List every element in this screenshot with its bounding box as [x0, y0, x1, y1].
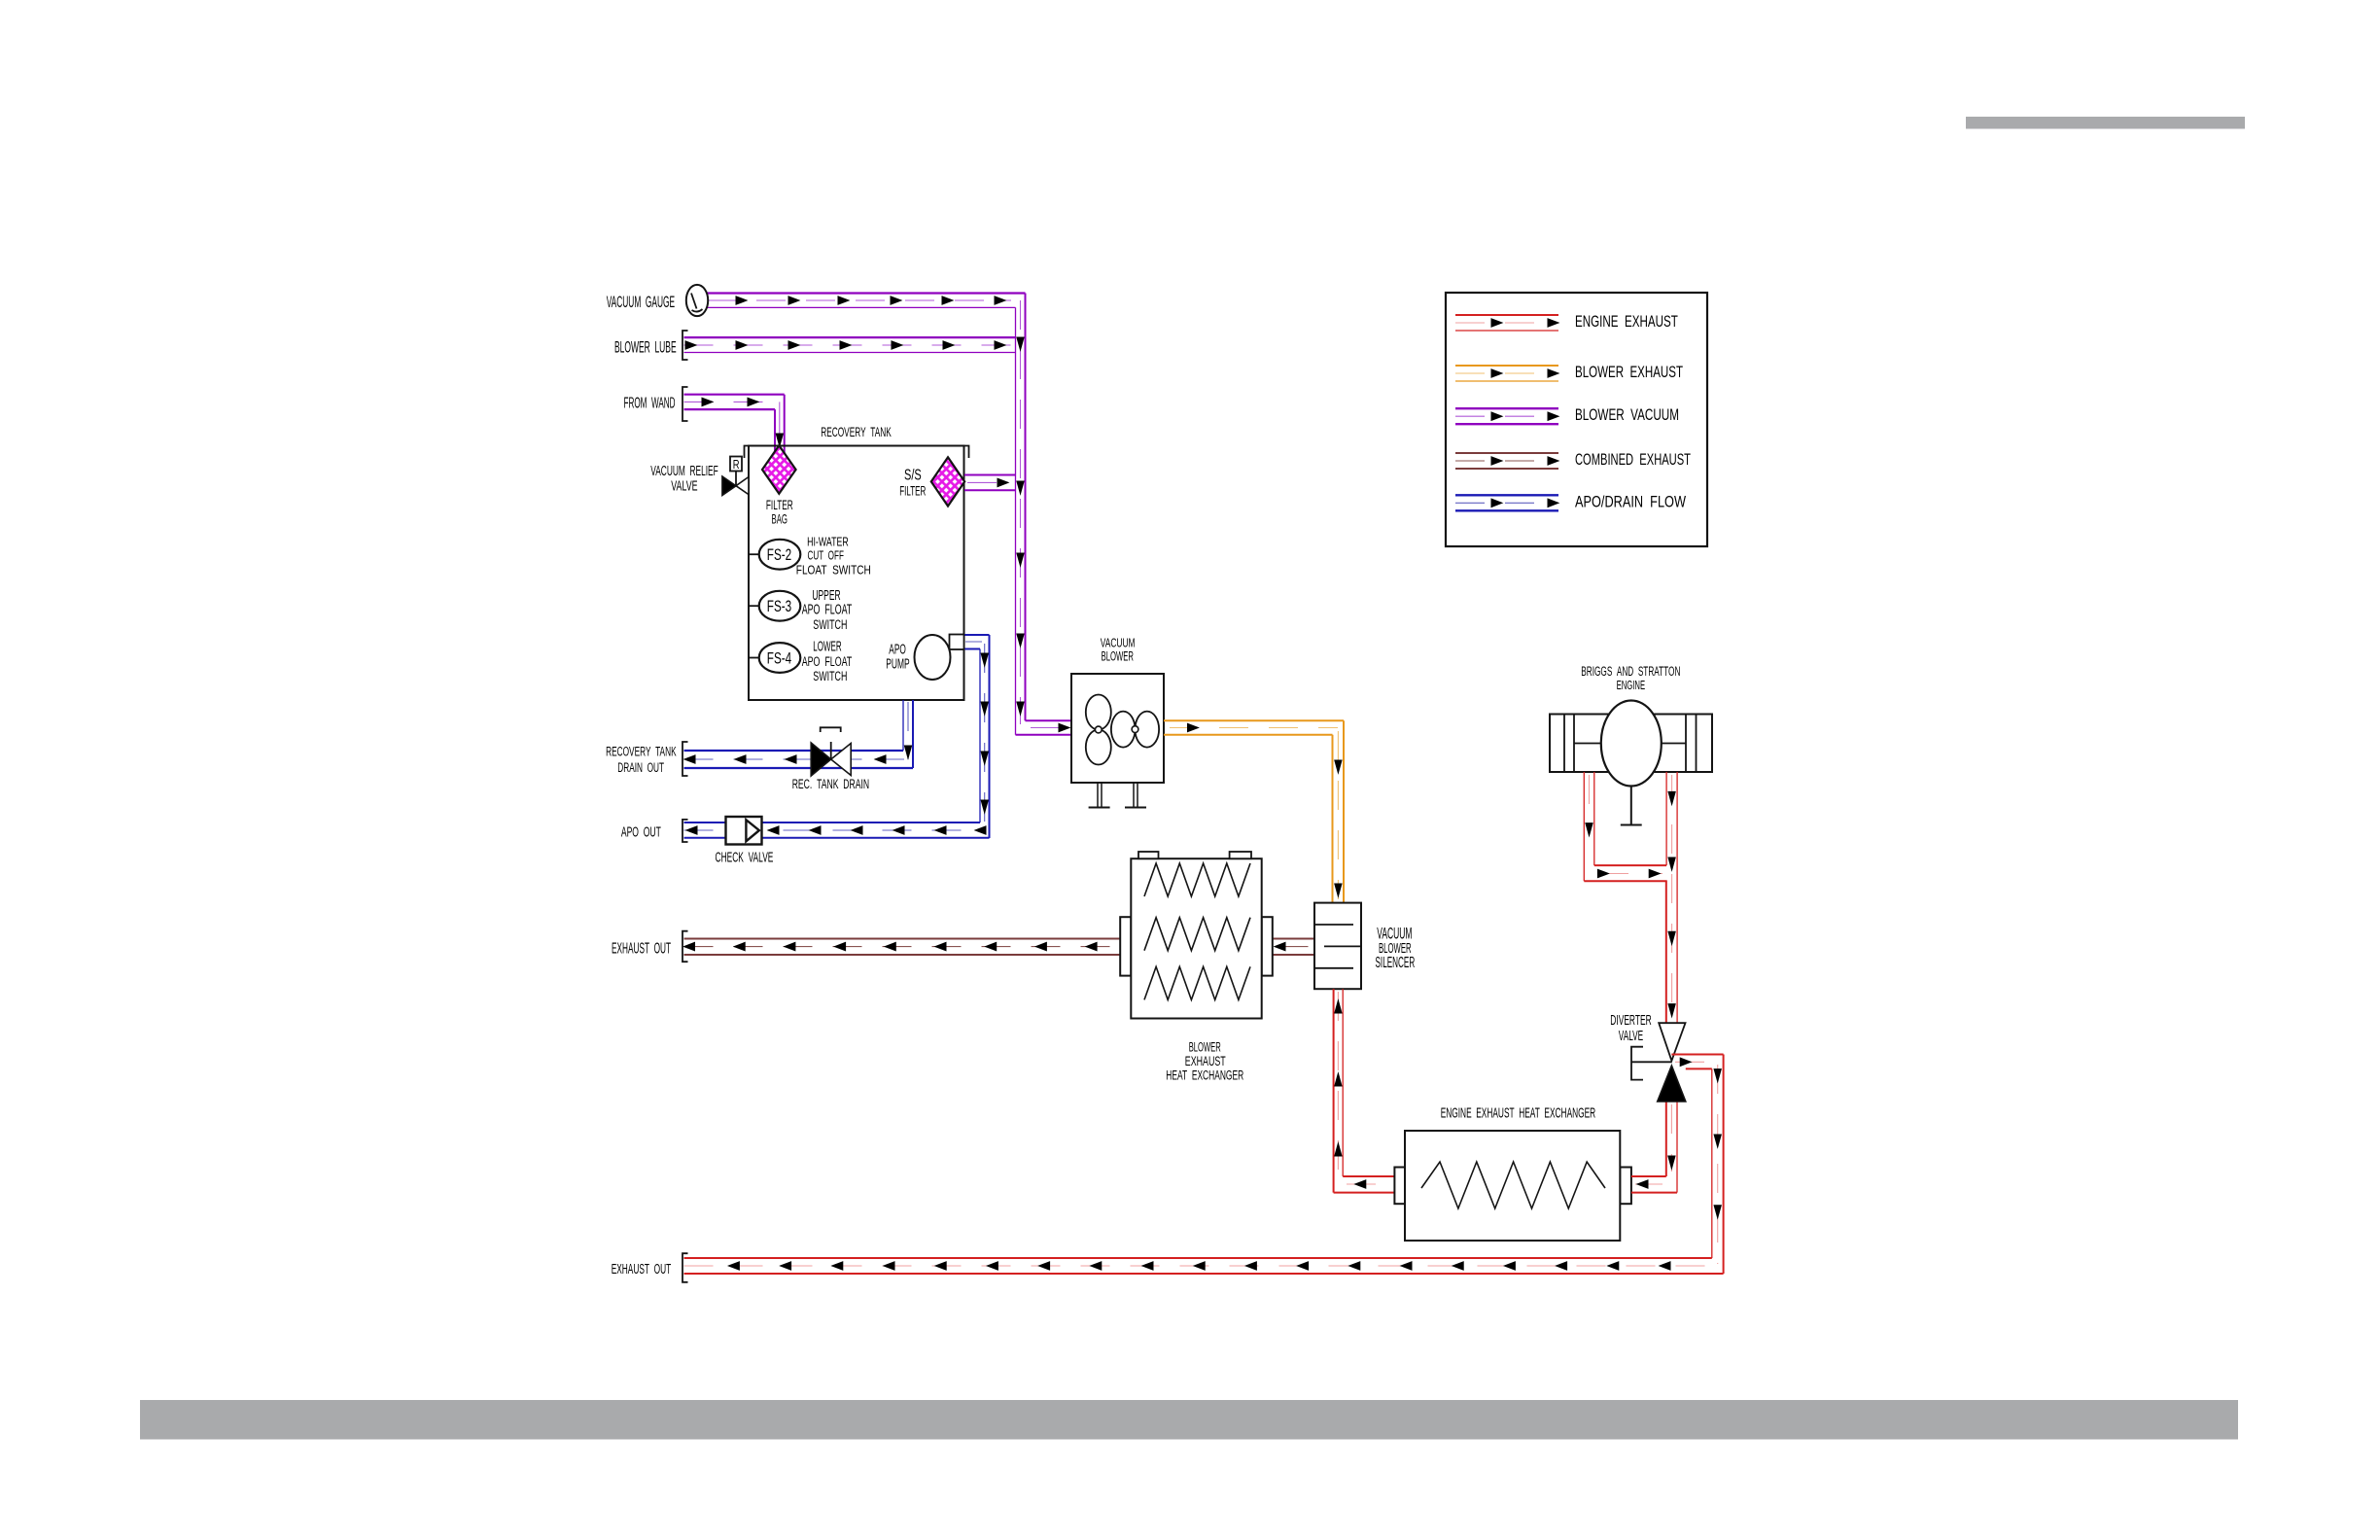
svg-text:FS-2: FS-2 — [767, 546, 791, 564]
svg-text:APO: APO — [889, 643, 906, 658]
svg-text:SWITCH: SWITCH — [813, 616, 847, 632]
svg-text:FS-3: FS-3 — [767, 598, 791, 615]
svg-text:CHECK VALVE: CHECK VALVE — [716, 851, 774, 866]
svg-text:VALVE: VALVE — [671, 479, 697, 495]
svg-text:R: R — [733, 457, 740, 472]
svg-text:BLOWER: BLOWER — [1102, 649, 1134, 664]
svg-text:ENGINE: ENGINE — [1617, 678, 1646, 692]
svg-text:VACUUM RELIEF: VACUUM RELIEF — [650, 464, 717, 479]
svg-text:BLOWER EXHAUST: BLOWER EXHAUST — [1575, 363, 1683, 381]
svg-text:VACUUM: VACUUM — [1101, 635, 1136, 649]
svg-text:PUMP: PUMP — [886, 656, 909, 672]
svg-text:S/S: S/S — [904, 468, 922, 484]
svg-text:RECOVERY TANK: RECOVERY TANK — [821, 424, 892, 439]
svg-text:DRAIN OUT: DRAIN OUT — [617, 759, 664, 775]
svg-text:EXHAUST OUT: EXHAUST OUT — [612, 940, 671, 957]
svg-text:APO OUT: APO OUT — [621, 825, 661, 841]
svg-text:HI-WATER: HI-WATER — [807, 534, 849, 548]
svg-text:APO FLOAT: APO FLOAT — [802, 653, 853, 669]
svg-text:BLOWER: BLOWER — [1189, 1040, 1221, 1055]
svg-text:REC. TANK DRAIN: REC. TANK DRAIN — [792, 776, 869, 791]
svg-text:ENGINE EXHAUST: ENGINE EXHAUST — [1575, 312, 1678, 331]
svg-text:EXHAUST OUT: EXHAUST OUT — [612, 1262, 672, 1277]
svg-text:VACUUM GAUGE: VACUUM GAUGE — [607, 293, 675, 311]
svg-text:SWITCH: SWITCH — [813, 668, 847, 683]
svg-text:HEAT EXCHANGER: HEAT EXCHANGER — [1166, 1068, 1243, 1083]
svg-text:COMBINED EXHAUST: COMBINED EXHAUST — [1575, 450, 1691, 469]
svg-text:RECOVERY TANK: RECOVERY TANK — [606, 743, 677, 758]
svg-text:ENGINE EXHAUST HEAT EXCHANG: ENGINE EXHAUST HEAT EXCHANGER — [1441, 1105, 1596, 1121]
svg-text:BLOWER VACUUM: BLOWER VACUUM — [1575, 405, 1679, 424]
svg-text:EXHAUST: EXHAUST — [1185, 1054, 1226, 1068]
svg-text:CUT OFF: CUT OFF — [808, 547, 844, 562]
svg-text:VALVE: VALVE — [1619, 1029, 1644, 1044]
svg-text:FLOAT SWITCH: FLOAT SWITCH — [796, 562, 871, 577]
svg-text:BLOWER LUBE: BLOWER LUBE — [614, 339, 677, 357]
svg-text:DIVERTER: DIVERTER — [1610, 1013, 1651, 1029]
svg-text:FS-4: FS-4 — [767, 649, 791, 667]
svg-text:BRIGGS AND STRATTON: BRIGGS AND STRATTON — [1581, 663, 1680, 679]
svg-text:SILENCER: SILENCER — [1376, 955, 1416, 971]
svg-text:FROM WAND: FROM WAND — [624, 395, 676, 411]
svg-text:UPPER: UPPER — [812, 588, 840, 604]
svg-text:FILTER: FILTER — [899, 483, 926, 499]
svg-text:APO/DRAIN FLOW: APO/DRAIN FLOW — [1575, 492, 1686, 510]
svg-text:BAG: BAG — [772, 510, 788, 526]
